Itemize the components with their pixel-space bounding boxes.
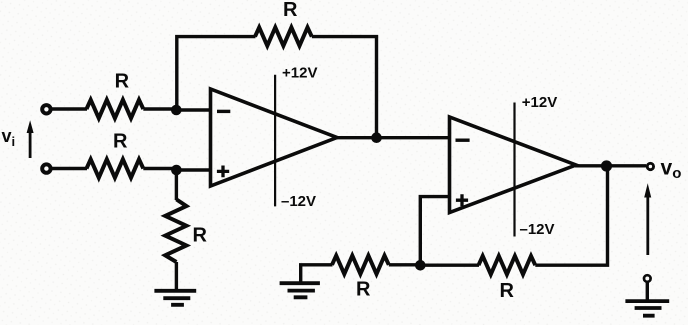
ground G1	[154, 291, 196, 305]
ground G2	[280, 283, 320, 297]
svg-text:–12V: –12V	[281, 193, 316, 210]
output reference terminal (open circle)	[644, 275, 651, 282]
wire node D to R5	[420, 264, 479, 267]
U1 supply rail line	[274, 75, 276, 207]
wire feedback: node A up and right to R feedback	[177, 37, 256, 110]
node A (junction dot, inverting input net)	[171, 105, 182, 116]
node C (U1 output junction dot)	[371, 132, 382, 143]
input terminal 2 (open circle)	[42, 164, 50, 172]
wire R4 to node D	[389, 263, 421, 266]
wire R5 to U2 output	[535, 166, 607, 265]
U1 minus input symbol	[217, 110, 230, 113]
resistor R5 (bottom feedback)	[479, 256, 536, 274]
wire R feedback to output node, down	[312, 37, 377, 138]
svg-text:R: R	[193, 225, 208, 247]
op-amp U1	[211, 89, 338, 186]
op-amp U2	[450, 117, 577, 213]
wire node A to op-amp U1 minus input	[176, 108, 211, 111]
resistor R1 (upper input)	[87, 100, 144, 118]
wire U2 plus input to node D	[420, 197, 450, 266]
U2 supply rail line	[513, 103, 515, 237]
wire reference terminal to ground G3	[646, 282, 649, 300]
resistor R4 (bottom left)	[332, 256, 389, 274]
node D (junction dot)	[415, 260, 426, 271]
ground G2 stub and wire to R4	[301, 265, 333, 282]
wire input1 to R1	[52, 107, 87, 110]
svg-text:R: R	[113, 131, 128, 153]
svg-text:R: R	[115, 71, 130, 93]
resistor R2 (lower input)	[87, 159, 144, 177]
vi polarity arrow	[29, 130, 32, 158]
wire U2 output to terminal	[575, 164, 646, 167]
resistor R3 (to ground, vertical)	[165, 199, 186, 262]
node B (junction dot, non-inverting input net)	[171, 165, 182, 176]
wire R3 to ground	[175, 262, 178, 290]
wire node B down to R3	[175, 170, 178, 200]
svg-text:–12V: –12V	[520, 221, 555, 238]
ground G3	[625, 301, 669, 316]
svg-text:R: R	[356, 279, 371, 301]
wire R1 to node A	[143, 107, 176, 110]
svg-text:+12V: +12V	[282, 65, 317, 82]
svg-text:+12V: +12V	[522, 94, 557, 111]
vo polarity arrow	[646, 195, 649, 255]
svg-text:R: R	[500, 280, 515, 302]
U2 plus input symbol	[456, 194, 468, 206]
input terminal 1 (open circle)	[42, 105, 50, 113]
node E (output junction dot)	[601, 160, 612, 171]
U1 plus input symbol	[217, 166, 229, 178]
resistor R feedback	[255, 27, 312, 45]
wire input2 to R2	[52, 167, 87, 170]
wire R2 to node B	[143, 167, 176, 170]
svg-text:R: R	[283, 0, 298, 21]
wire node B to op-amp U1 plus input	[176, 168, 211, 171]
wire U1 output to U2 minus input	[336, 136, 450, 139]
U2 minus input symbol	[456, 138, 470, 141]
output terminal (open circle)	[647, 163, 653, 169]
